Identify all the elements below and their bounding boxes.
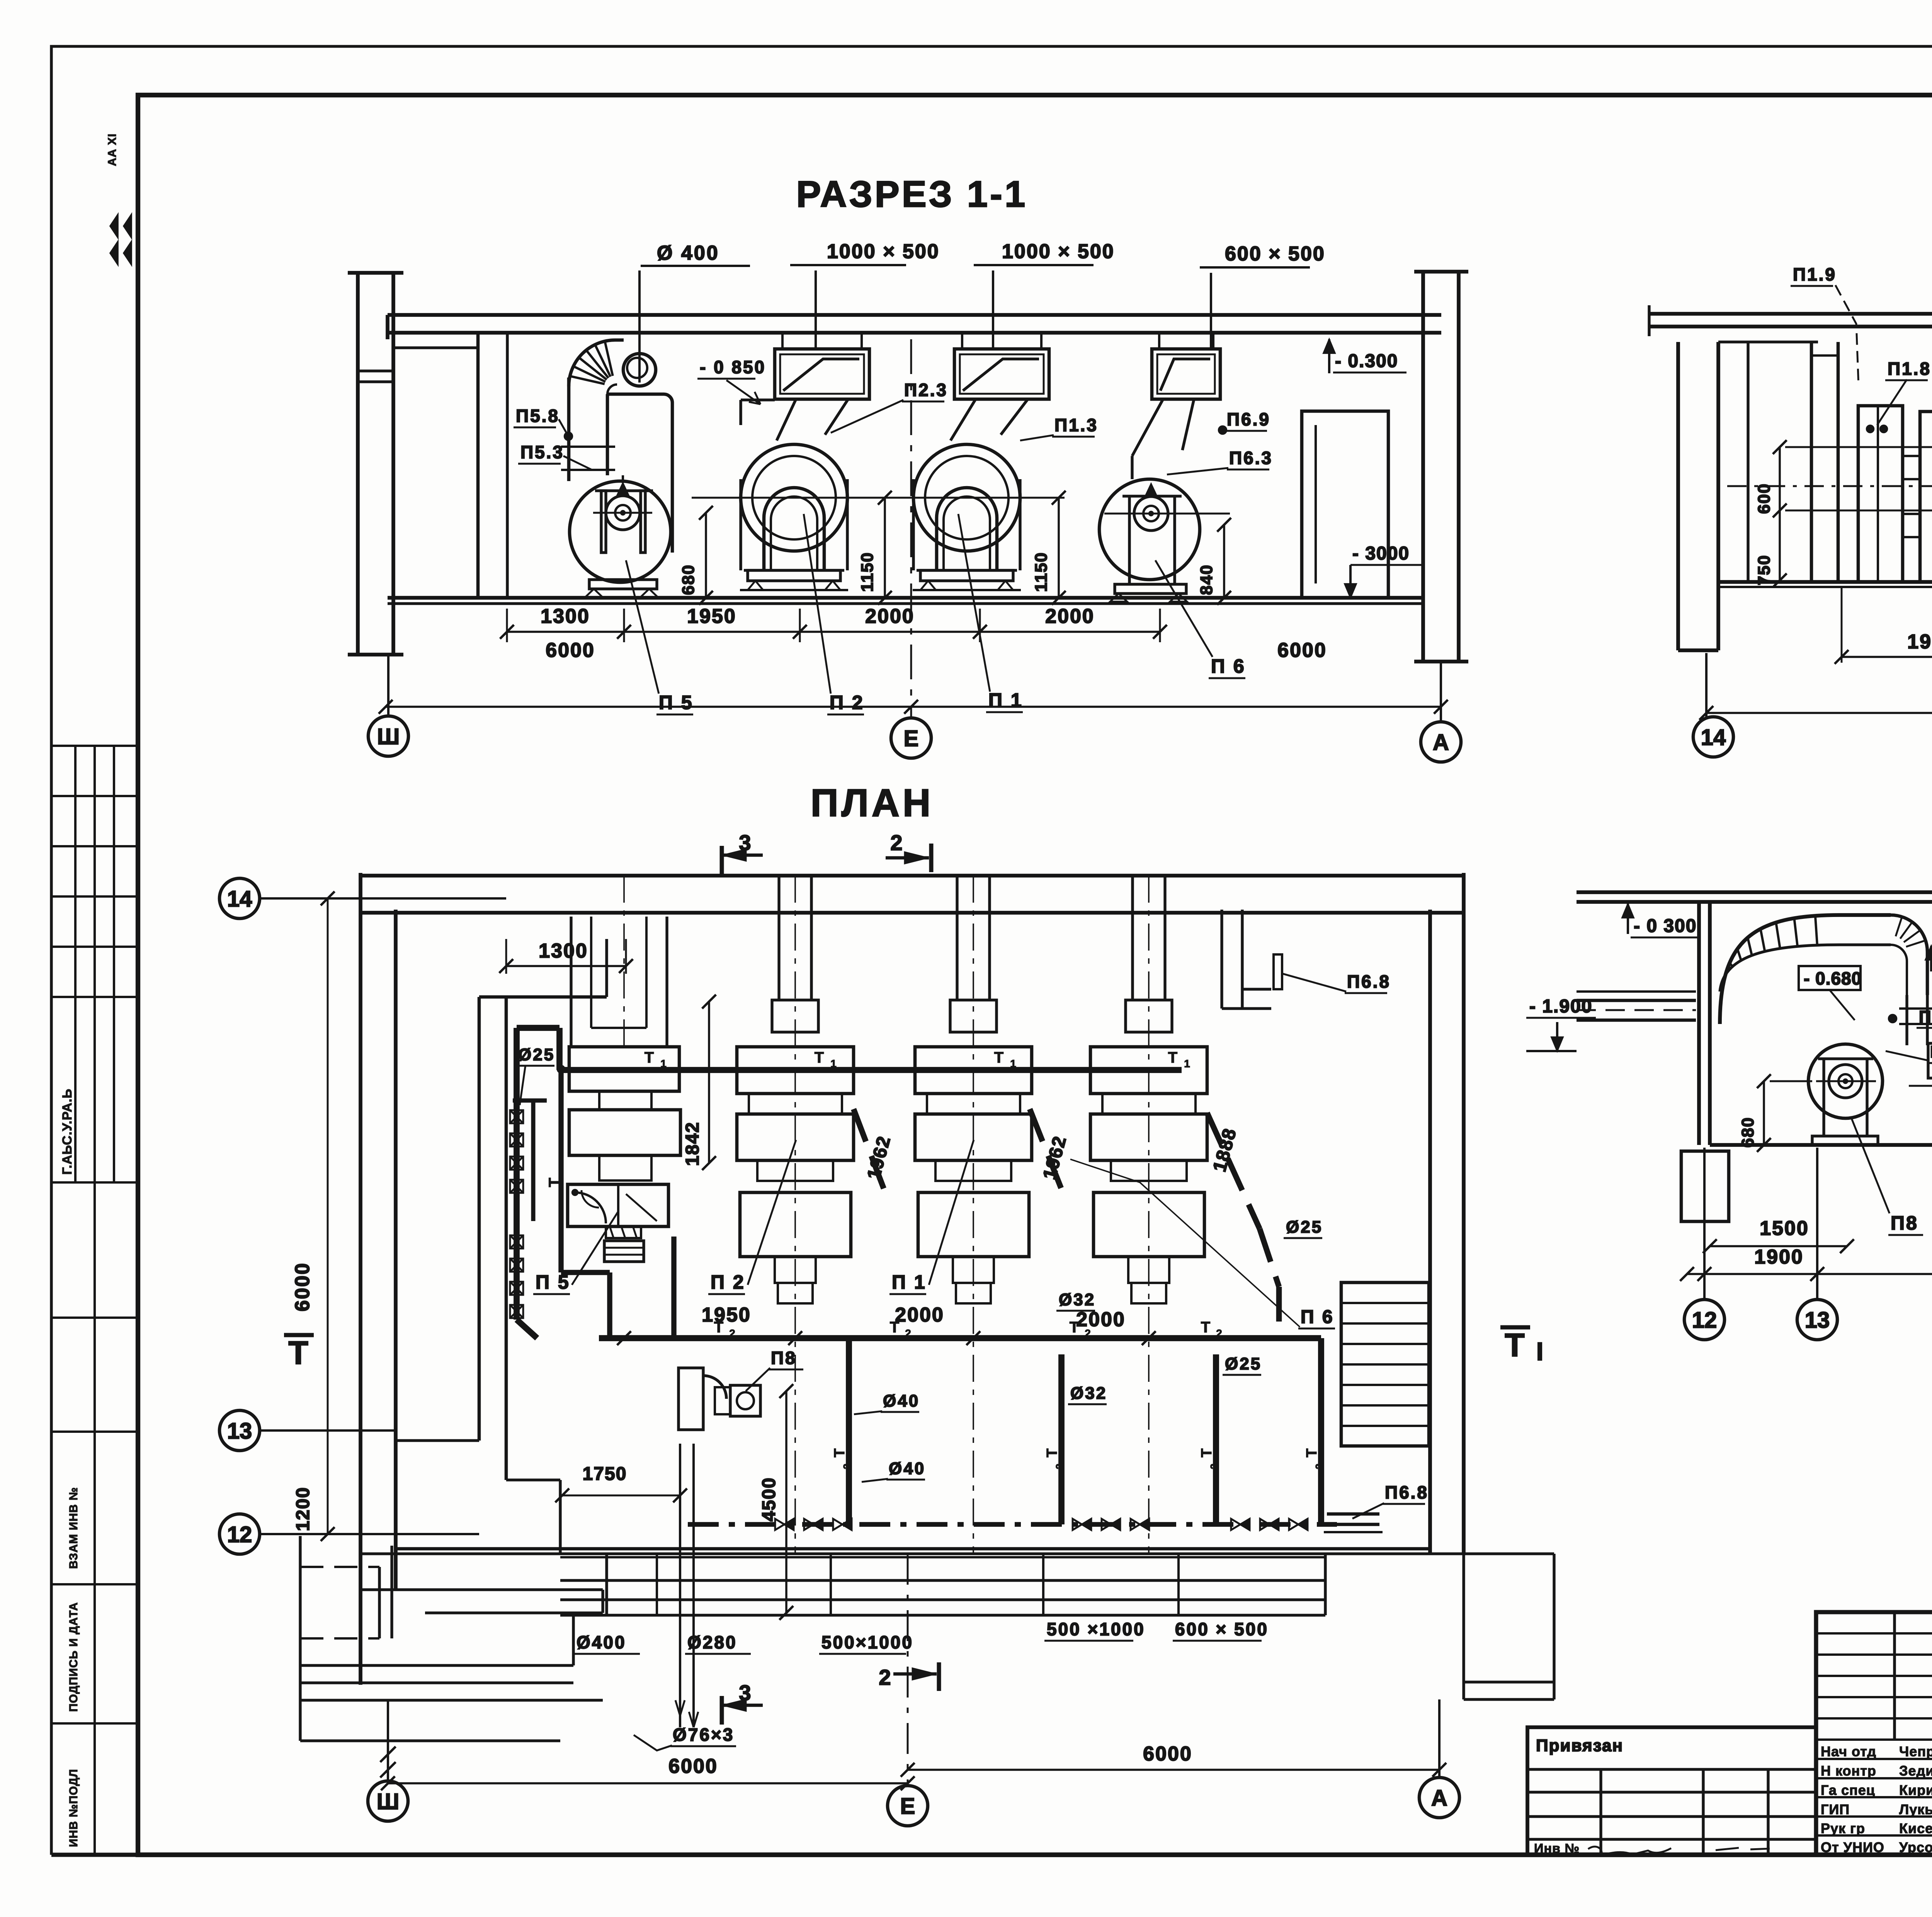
svg-text:От УНИО: От УНИО — [1821, 1839, 1884, 1855]
s11 ceiling slab — [388, 313, 1441, 317]
svg-text:П 2: П 2 — [830, 692, 864, 713]
svg-text:П 5: П 5 — [536, 1271, 570, 1293]
s22 AHU block 2 — [1920, 412, 1932, 582]
svg-text:Ø32: Ø32 — [1059, 1290, 1095, 1309]
s11 dim 680 vertical — [705, 513, 707, 598]
svg-text:П8: П8 — [1891, 1212, 1918, 1234]
axis 12 s33 — [1703, 1148, 1706, 1298]
duct with damper — [1152, 349, 1220, 399]
plan axis 14 left — [260, 897, 506, 900]
title block upper grid — [1816, 1632, 1932, 1635]
svg-text:Ø25: Ø25 — [518, 1045, 555, 1064]
plan top wall — [361, 874, 1464, 878]
plan chamber left wall — [478, 997, 481, 1441]
svg-text:Привязан: Привязан — [1536, 1736, 1623, 1755]
svg-text:П6.8: П6.8 — [1347, 971, 1391, 992]
plan chamber inner top — [605, 939, 608, 997]
svg-text:Е: Е — [904, 726, 919, 751]
svg-text:13: 13 — [227, 1419, 252, 1444]
plan axis А bottom — [1438, 1699, 1440, 1778]
plan dim 1842 vertical — [708, 1002, 710, 1163]
svg-text:500×1000: 500×1000 — [821, 1632, 913, 1652]
dim 1000x500 no2 — [974, 264, 1094, 266]
svg-text:П8 3: П8 3 — [1930, 1043, 1932, 1061]
svg-text:П 1: П 1 — [892, 1271, 927, 1293]
plan AHU train at 2519 — [956, 876, 958, 1000]
svg-text:Т: Т — [994, 1049, 1003, 1066]
s33 floor — [1710, 1143, 1932, 1147]
label -0.680 boxed — [1799, 966, 1861, 990]
s22 ceiling lower line — [1718, 340, 1818, 343]
svg-text:Урсов: Урсов — [1899, 1839, 1932, 1855]
svg-text:1150: 1150 — [858, 552, 877, 592]
plan thick diagonals 1962 — [854, 1109, 889, 1202]
plan thick pipe left riser — [514, 1028, 520, 1320]
s22 AHU connector — [1903, 456, 1920, 479]
fan volute big — [741, 444, 847, 551]
s11 dim 1150 no2 — [1058, 498, 1060, 598]
plan right wall — [1428, 910, 1432, 1554]
svg-text:- 0.680: - 0.680 — [1804, 968, 1862, 988]
svg-text:6000: 6000 — [1143, 1743, 1192, 1765]
svg-text:ГИП: ГИП — [1821, 1801, 1850, 1817]
svg-text:Т: Т — [546, 1178, 563, 1187]
s22 floor — [1718, 580, 1932, 584]
left margin middle box — [74, 997, 77, 1182]
svg-text:1900: 1900 — [1754, 1246, 1804, 1268]
plan П5 train — [570, 917, 572, 1047]
fan volute big — [913, 444, 1020, 551]
plan thick pipe T2 horizontal — [599, 1335, 1321, 1341]
svg-text:П 2: П 2 — [711, 1271, 745, 1293]
s33 fan П8 stand — [1822, 1059, 1825, 1136]
svg-text:Ø40: Ø40 — [889, 1459, 925, 1478]
axis Е s11 — [910, 339, 912, 718]
fan П6 motor — [1134, 497, 1168, 531]
svg-text:ИНВ №ПОДЛ: ИНВ №ПОДЛ — [67, 1769, 80, 1847]
svg-text:12: 12 — [227, 1522, 252, 1547]
svg-text:Зедина: Зедина — [1899, 1763, 1932, 1779]
plan bottom-left corridor lines — [299, 1536, 301, 1741]
s33 left footing — [1681, 1151, 1729, 1221]
svg-text:Нач отд: Нач отд — [1821, 1744, 1876, 1759]
svg-text:Ш: Ш — [377, 724, 400, 749]
svg-text:1842: 1842 — [682, 1122, 703, 1166]
svg-text:Ø 400: Ø 400 — [657, 242, 719, 264]
s33 elbow 2 down to fan — [1891, 915, 1927, 995]
dim 680 left — [1763, 1081, 1765, 1145]
svg-text:2: 2 — [841, 1464, 853, 1469]
svg-text:Ø76×3: Ø76×3 — [673, 1725, 734, 1745]
svg-text:Кириллова: Кириллова — [1899, 1782, 1932, 1798]
s11 right column — [1421, 272, 1425, 662]
svg-text:П6.8: П6.8 — [1385, 1482, 1429, 1502]
svg-text:- 0.300: - 0.300 — [1335, 351, 1398, 371]
plan dim 6000 left vertical — [327, 898, 329, 1534]
s33 dim 1500 — [1710, 1245, 1847, 1247]
fan П6 volute — [1099, 479, 1200, 580]
svg-text:Н контр: Н контр — [1821, 1763, 1876, 1779]
svg-text:600 × 500: 600 × 500 — [1175, 1619, 1269, 1639]
plan left corridor walls — [359, 873, 362, 1685]
svg-text:ПОДПИСЬ И ДАТА: ПОДПИСЬ И ДАТА — [67, 1602, 80, 1712]
plan pipe second vertical — [531, 1101, 536, 1221]
duct with damper — [775, 349, 869, 399]
svg-text:Т: Т — [1304, 1448, 1320, 1457]
svg-text:Ø280: Ø280 — [687, 1632, 737, 1652]
svg-text:6000: 6000 — [668, 1755, 718, 1778]
s11 floor — [388, 596, 1423, 600]
svg-text:840: 840 — [1197, 564, 1216, 595]
s22 partition line — [1747, 342, 1749, 582]
s33 fan П5 motor — [1928, 1043, 1932, 1078]
s22 partition — [1810, 342, 1813, 582]
fan casing sides — [912, 479, 915, 570]
s22 center dashline — [1727, 485, 1932, 487]
s33 dim 1900 6000 — [1687, 1273, 1932, 1275]
svg-text:А: А — [1431, 1786, 1447, 1811]
svg-text:П8.8: П8.8 — [1919, 1007, 1932, 1026]
plan T2 risers down — [846, 1338, 852, 1524]
leader П5 s11 — [626, 560, 659, 694]
svg-text:500 ×1000: 500 ×1000 — [1047, 1619, 1145, 1639]
svg-text:1200: 1200 — [293, 1487, 313, 1531]
plan bottom distribution line — [688, 1522, 1337, 1527]
plan Т2 riser П5 — [671, 1237, 676, 1338]
dim 600x500 — [1200, 266, 1310, 269]
fan П5 casing — [607, 393, 664, 396]
plan dim 1300 top — [506, 965, 626, 967]
plan П5 fan box — [568, 1184, 668, 1226]
svg-text:П 6: П 6 — [1301, 1307, 1334, 1327]
duct with damper — [954, 349, 1049, 399]
s11 left column — [356, 273, 360, 655]
s33 ceiling slab — [1577, 890, 1932, 894]
svg-text:- 1.900: - 1.900 — [1529, 996, 1592, 1017]
svg-text:Т: Т — [1168, 1049, 1177, 1066]
fan casing sides — [739, 479, 742, 570]
svg-text:П1.9: П1.9 — [1793, 264, 1837, 284]
plan thick pipe T1 horizontal — [560, 1067, 1182, 1073]
svg-text:Ø32: Ø32 — [1070, 1384, 1107, 1403]
plan dim 4500 — [785, 1391, 787, 1613]
axis 14 s22 — [1705, 653, 1708, 717]
dim 600 750 s22 — [1779, 447, 1781, 580]
svg-text:6000: 6000 — [546, 639, 595, 662]
svg-text:П1.3: П1.3 — [1054, 415, 1098, 435]
svg-text:П6.9: П6.9 — [1227, 409, 1270, 429]
plan dim 6000 Е-А — [908, 1769, 1439, 1771]
svg-text:2: 2 — [729, 1327, 735, 1339]
svg-text:1: 1 — [1010, 1058, 1016, 1070]
fan base frame — [917, 569, 1017, 572]
svg-text:Чепринский: Чепринский — [1899, 1744, 1932, 1759]
svg-text:1000 × 500: 1000 × 500 — [827, 240, 940, 263]
svg-text:3: 3 — [739, 1681, 751, 1705]
svg-text:1: 1 — [660, 1058, 667, 1070]
plan axis Ш bottom — [387, 1700, 389, 1781]
dim 1000x500 no1 — [790, 264, 906, 266]
plan axis 12 left — [260, 1533, 479, 1535]
axis Ш s11 — [387, 655, 389, 716]
fan П5 motor — [606, 496, 640, 530]
axis А s11 — [1440, 662, 1442, 722]
svg-text:ПЛАН: ПЛАН — [811, 781, 934, 825]
svg-text:680: 680 — [679, 564, 698, 595]
plan section flag 3 bottom — [720, 1696, 724, 1725]
fan bell inlet — [937, 488, 997, 570]
s33 fan П8 motor — [1829, 1065, 1862, 1098]
train axis — [973, 876, 974, 1553]
svg-text:- 0 850: - 0 850 — [700, 357, 766, 377]
plan bottom wall of chamber — [506, 1478, 560, 1481]
fan base frame — [744, 569, 844, 572]
fan П5 intake duct — [567, 378, 571, 481]
s33 left wall — [1697, 902, 1701, 1145]
svg-text:Г.АЬС.У.РА.Ь: Г.АЬС.У.РА.Ь — [60, 1089, 75, 1175]
svg-text:1500: 1500 — [1760, 1217, 1809, 1240]
fan П5 round duct flange — [623, 354, 656, 386]
title block name rows — [1816, 1758, 1932, 1760]
plan П6.8 grille lower — [1327, 1523, 1379, 1526]
plan AHU train at 2058 — [777, 876, 780, 1000]
svg-text:П 1: П 1 — [988, 689, 1023, 711]
fan П5 intake elbow — [569, 340, 624, 386]
svg-text:Т: Т — [288, 1335, 308, 1371]
svg-text:1000 × 500: 1000 × 500 — [1002, 240, 1115, 263]
plan axis Е bottom — [907, 1554, 909, 1785]
svg-text:Ø40: Ø40 — [883, 1391, 920, 1410]
svg-text:П1.8: П1.8 — [1888, 359, 1931, 379]
svg-text:П 6: П 6 — [1211, 655, 1246, 677]
svg-text:680: 680 — [1738, 1117, 1757, 1147]
leader П6 s11 — [1155, 560, 1213, 657]
plan T1 riser left of П5 — [558, 1069, 563, 1272]
svg-text:Ø25: Ø25 — [1286, 1218, 1323, 1237]
svg-text:П 5: П 5 — [659, 692, 694, 713]
svg-text:П6.3: П6.3 — [1229, 448, 1273, 468]
svg-text:Т: Т — [1505, 1327, 1524, 1363]
svg-text:2000: 2000 — [895, 1304, 944, 1326]
svg-text:Т: Т — [815, 1049, 824, 1066]
svg-text:1150: 1150 — [1032, 552, 1051, 592]
svg-text:13: 13 — [1805, 1308, 1830, 1333]
svg-text:Га спец: Га спец — [1821, 1782, 1875, 1798]
train axis — [1148, 876, 1150, 1553]
s22 dim 6000 1900 — [1706, 712, 1932, 714]
plan pipe valves left chain — [510, 1110, 523, 1123]
svg-text:14: 14 — [1701, 725, 1726, 750]
plan staircase — [1341, 1283, 1429, 1446]
svg-text:- 3000: - 3000 — [1352, 543, 1410, 564]
dim Ø400 leader — [641, 265, 750, 267]
svg-text:1: 1 — [830, 1058, 837, 1070]
plan П8 unit — [679, 1368, 703, 1430]
svg-text:Т: Т — [645, 1049, 654, 1066]
svg-text:Т: Т — [832, 1448, 848, 1457]
s33 intake elbow big — [1720, 915, 1891, 1024]
s11 dim 840 — [1223, 525, 1225, 598]
svg-text:Е: Е — [900, 1794, 915, 1819]
svg-text:6000: 6000 — [1277, 639, 1327, 662]
fan П5 volute — [570, 481, 671, 582]
s22 left wall axis 14 — [1676, 342, 1680, 650]
plan П5 motor — [604, 1241, 644, 1262]
svg-text:6000: 6000 — [291, 1262, 314, 1311]
label -0300 s33 — [1627, 904, 1629, 934]
svg-text:Инв №: Инв № — [1534, 1841, 1580, 1856]
plan lower supply ducts — [560, 1556, 1325, 1558]
svg-text:12: 12 — [1692, 1308, 1717, 1333]
svg-text:П8: П8 — [771, 1348, 797, 1368]
svg-text:ВЗАМ ИНВ №: ВЗАМ ИНВ № — [67, 1487, 80, 1569]
s33 fan П8 volute — [1808, 1044, 1883, 1118]
svg-text:1750: 1750 — [583, 1464, 627, 1484]
svg-text:3: 3 — [739, 830, 751, 855]
svg-text:2: 2 — [1313, 1464, 1325, 1469]
title block outline — [1816, 1612, 1932, 1855]
svg-text:Ø25: Ø25 — [1225, 1354, 1262, 1373]
axis 13 s33 — [1816, 1148, 1818, 1298]
svg-text:А: А — [1433, 730, 1449, 755]
svg-text:750: 750 — [1755, 555, 1774, 585]
svg-text:2: 2 — [1208, 1464, 1220, 1469]
fan П6 stand — [1128, 496, 1131, 584]
svg-text:2000: 2000 — [865, 605, 915, 628]
bottom frame line — [51, 1853, 1932, 1857]
svg-text:Рук гр: Рук гр — [1821, 1820, 1865, 1836]
fan bell inlet — [764, 488, 824, 570]
s33 left exterior duct — [1577, 999, 1696, 1002]
svg-text:І: І — [1536, 1337, 1543, 1366]
svg-text:2000: 2000 — [1045, 605, 1095, 628]
s22 AHU block 1 — [1858, 406, 1903, 582]
plan axis 13 left — [260, 1429, 396, 1432]
plan valve clusters — [775, 1519, 784, 1530]
fan П5 stand — [601, 491, 606, 553]
svg-text:1300: 1300 — [539, 940, 588, 962]
privyazan table — [1527, 1727, 1816, 1855]
leader П2 s11 — [804, 514, 831, 694]
plan П68 upper duct — [1220, 910, 1223, 1009]
svg-text:2: 2 — [1216, 1327, 1222, 1339]
s22 dim 1962 — [1842, 656, 1932, 658]
left margin stamp grid — [51, 745, 138, 747]
label -0.800 s33 — [1930, 946, 1932, 971]
train axis — [794, 876, 796, 1553]
svg-text:1962: 1962 — [1907, 631, 1932, 653]
svg-text:14: 14 — [227, 886, 252, 912]
svg-text:2000: 2000 — [1076, 1308, 1126, 1331]
svg-text:Т: Т — [1201, 1319, 1210, 1336]
plan dim 6000 Ш-Е — [388, 1782, 908, 1784]
s11 dim 1150 no1 — [884, 498, 886, 598]
svg-text:600 × 500: 600 × 500 — [1225, 243, 1325, 265]
s11 left wall — [476, 333, 480, 598]
svg-text:2: 2 — [890, 830, 902, 855]
s11 door right — [1302, 411, 1388, 598]
svg-text:РАЗРЕЗ 1-1: РАЗРЕЗ 1-1 — [796, 173, 1028, 215]
leader П1 s11 — [958, 514, 990, 692]
П2 transition — [777, 399, 796, 441]
leader П8 s33 — [1851, 1117, 1889, 1213]
svg-text:Ø400: Ø400 — [577, 1632, 626, 1652]
svg-text:Лукьянова: Лукьянова — [1899, 1801, 1932, 1817]
svg-text:П5.8: П5.8 — [516, 406, 560, 426]
svg-text:1950: 1950 — [687, 605, 736, 628]
svg-text:Ш: Ш — [377, 1789, 399, 1814]
svg-text:2: 2 — [905, 1327, 911, 1339]
plan AHU train at 2973 — [1131, 876, 1134, 1000]
plan supply risers — [679, 1444, 681, 1727]
svg-text:Киселева: Киселева — [1899, 1820, 1932, 1836]
svg-text:П5.3: П5.3 — [520, 442, 564, 462]
svg-text:2: 2 — [1054, 1464, 1065, 1469]
s11 dim chain 1300 1950 2000 2000 — [506, 609, 508, 642]
plan П5 flex connector — [606, 1226, 641, 1238]
П1 transition — [951, 399, 976, 441]
svg-text:4500: 4500 — [759, 1477, 779, 1522]
svg-text:Т: Т — [1199, 1448, 1215, 1457]
svg-text:1: 1 — [1184, 1058, 1190, 1070]
plan section flag 2 top — [929, 844, 934, 872]
svg-text:1300: 1300 — [541, 605, 590, 628]
svg-text:- 0 300: - 0 300 — [1634, 916, 1697, 936]
svg-text:Т: Т — [1044, 1448, 1060, 1457]
svg-text:1950: 1950 — [702, 1304, 751, 1326]
s22 ceiling slab — [1649, 312, 1932, 316]
left margin lower boxes — [51, 1431, 138, 1433]
plan section flag 3 top — [720, 846, 724, 874]
svg-text:600: 600 — [1755, 483, 1774, 514]
svg-text:2: 2 — [879, 1665, 891, 1689]
level -0.300 s11 — [1328, 339, 1330, 373]
svg-text:АА XI: АА XI — [106, 133, 119, 166]
plan bottom-right corner walls — [1464, 1552, 1554, 1555]
plan section flag 2 bottom — [937, 1662, 941, 1691]
s11 dim 6000 6000 — [386, 706, 1441, 708]
